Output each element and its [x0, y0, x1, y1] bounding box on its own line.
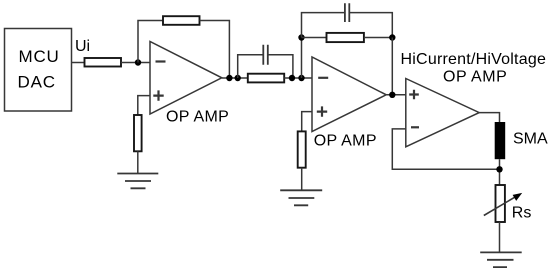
resistor Rf1 (U1 feedback) [163, 16, 200, 25]
ground GND2 [280, 190, 322, 205]
svg-text:Ui: Ui [75, 38, 90, 55]
wire U3 output to SMA [479, 113, 499, 122]
wire Rf1 down to U1 output node B [200, 21, 230, 79]
wire Cf2 right plate down to node G [349, 13, 392, 38]
resistor Rs (sense) [496, 185, 505, 222]
U3 minus sign [411, 126, 419, 128]
U2 plus sign [317, 106, 327, 116]
svg-text:Rs: Rs [512, 205, 532, 222]
svg-text:OP AMP: OP AMP [314, 132, 377, 149]
wire node A up to U1 feedback [138, 21, 163, 63]
node A: U1 inverting input junction [135, 59, 141, 65]
svg-text:HiCurrent/HiVoltage: HiCurrent/HiVoltage [401, 51, 547, 68]
wire node G down to U2 output [391, 38, 393, 95]
resistor Rg2 (U2 + to ground) [298, 131, 306, 167]
resistor Rc (coupling) [248, 74, 284, 83]
wire Ri to U1 inverting input [121, 62, 150, 64]
wire Cc right plate to node D [268, 55, 293, 78]
ground GND3 [480, 252, 522, 267]
node C: coupling capacitor branch junction [235, 75, 241, 81]
wire Rc to U2 inverting input [284, 77, 312, 79]
U1 plus sign [153, 90, 163, 100]
node H: U2 output junction [389, 92, 395, 98]
svg-text:SMA: SMA [513, 131, 548, 148]
wire SMA to node J [499, 159, 501, 185]
SMA actuator (black bar) [495, 122, 506, 159]
wire Rf2 to node G [364, 37, 392, 39]
wire node F up to Cf2 [302, 13, 345, 38]
node B: U1 output/feedback junction [226, 75, 232, 81]
node J: sense junction [496, 166, 502, 172]
wire Rs to ground [499, 222, 501, 252]
svg-text:OP AMP: OP AMP [166, 108, 229, 125]
MCU/DAC block [5, 29, 72, 112]
svg-text:OP AMP: OP AMP [443, 68, 507, 85]
node E: U2 inverting input junction [298, 75, 304, 81]
wire U2 output to U3 noninverting input [386, 94, 406, 96]
U1 minus sign [156, 60, 166, 62]
wire U1 output [222, 77, 248, 79]
U3 plus sign [409, 90, 419, 100]
resistor Ri (input) [85, 58, 122, 67]
op-amp U3 [406, 79, 479, 147]
Rs wiper arrow [484, 196, 517, 215]
node F: feedback network left node [298, 34, 304, 40]
op-amp U1 [150, 42, 222, 115]
U2 minus sign [318, 77, 328, 79]
resistor Rg1 (U1 + to ground) [134, 115, 142, 151]
wire node E up to U2 feedback network [301, 38, 303, 79]
svg-text:MCU: MCU [19, 47, 60, 66]
node D: capacitor branch rejoin [289, 75, 295, 81]
wire U1 noninverting input to Rg1 [138, 96, 150, 115]
capacitor Cc (coupling) plates [263, 45, 268, 65]
wire Rg2 to ground [301, 168, 303, 191]
wire U2 noninverting input to Rg2 [302, 112, 312, 132]
ground GND1 [117, 174, 158, 189]
wire node F to Rf2 [302, 37, 327, 39]
capacitor Cf2 (U2 feedback) plates [345, 3, 349, 22]
wire node C up to coupling capacitor [238, 55, 263, 78]
wire U3 inverting input feedback (left and down) [392, 129, 499, 169]
wire Rg1 to ground [137, 151, 139, 173]
resistor Rf2 (U2 feedback) [327, 33, 364, 42]
wire MCU output to input resistor [72, 62, 85, 64]
op-amp U2 [312, 57, 386, 132]
svg-text:DAC: DAC [18, 73, 56, 92]
node G: feedback network right node [389, 34, 395, 40]
